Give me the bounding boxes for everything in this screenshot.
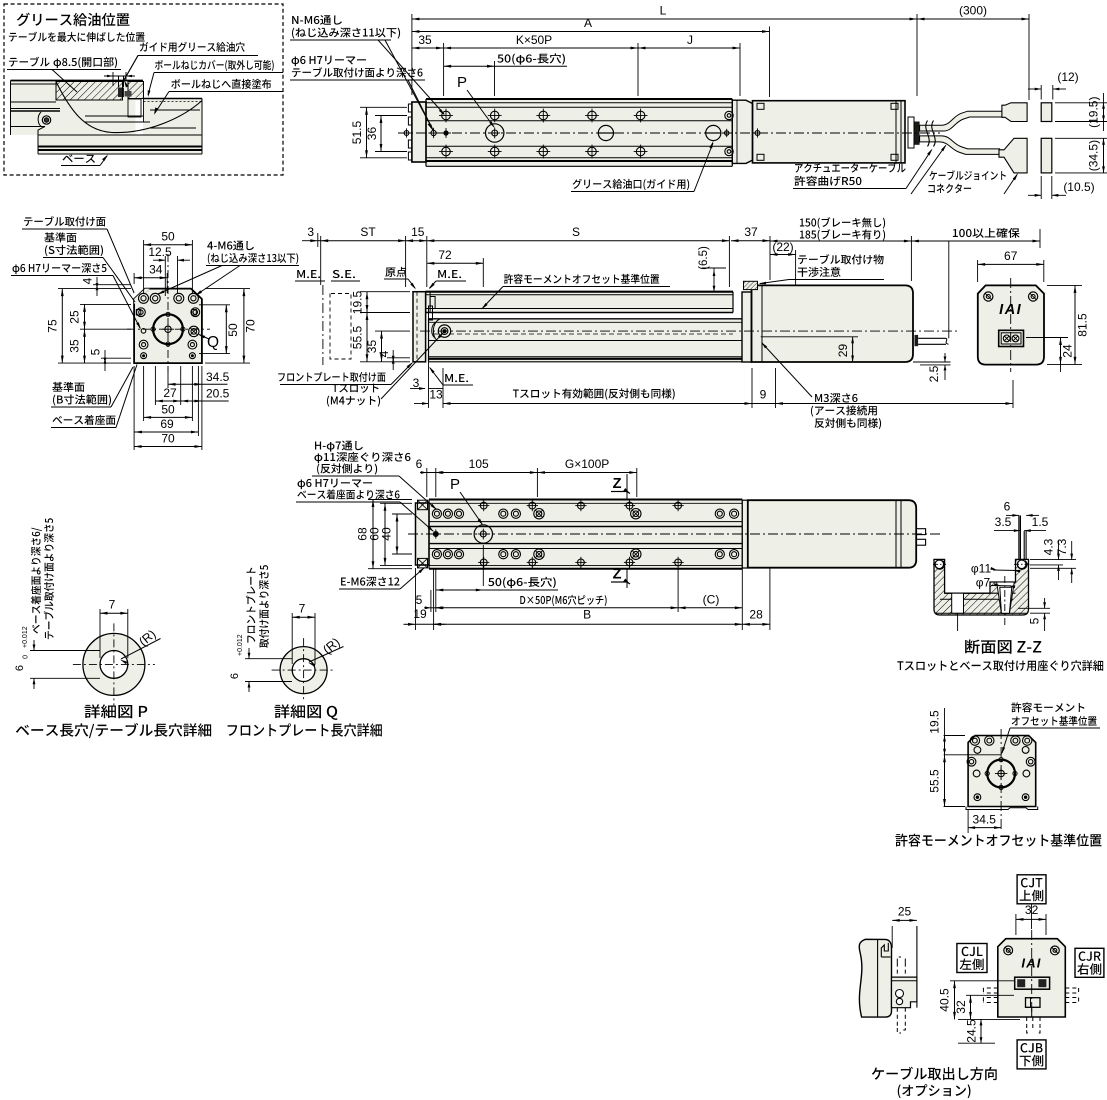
svg-text:20.5: 20.5 (206, 387, 230, 401)
svg-text:15: 15 (411, 225, 425, 239)
svg-text:19.5: 19.5 (351, 290, 365, 314)
svg-text:J: J (687, 33, 693, 47)
svg-text:G×100P: G×100P (565, 457, 609, 471)
svg-text:(12): (12) (1057, 70, 1078, 84)
svg-text:35: 35 (68, 339, 82, 353)
svg-text:34.5: 34.5 (973, 813, 997, 827)
svg-text:7: 7 (299, 602, 306, 616)
svg-text:5: 5 (416, 593, 423, 607)
svg-text:4.3: 4.3 (1042, 538, 1056, 555)
svg-text:(6.5): (6.5) (698, 246, 710, 270)
svg-text:7: 7 (109, 598, 116, 612)
svg-text:L: L (660, 4, 667, 18)
svg-text:27: 27 (163, 386, 177, 400)
svg-text:9: 9 (760, 388, 767, 402)
svg-text:55.5: 55.5 (351, 325, 365, 349)
svg-text:19.5: 19.5 (928, 710, 942, 734)
svg-text:75: 75 (46, 319, 60, 333)
svg-text:72: 72 (438, 248, 452, 262)
svg-text:P: P (450, 476, 460, 493)
svg-text:67: 67 (1004, 249, 1018, 263)
svg-text:29: 29 (836, 344, 850, 358)
svg-text:105: 105 (469, 457, 489, 471)
svg-text:B: B (583, 608, 591, 622)
svg-text:34: 34 (149, 263, 163, 277)
svg-text:70: 70 (244, 319, 258, 333)
svg-text:70: 70 (161, 432, 175, 446)
svg-text:40: 40 (380, 527, 394, 541)
svg-text:37: 37 (744, 225, 758, 239)
svg-text:25: 25 (68, 310, 82, 324)
svg-text:+0.012: +0.012 (22, 626, 29, 648)
svg-text:34.5: 34.5 (206, 370, 230, 384)
svg-text:(34.5): (34.5) (1087, 140, 1101, 171)
svg-text:ST: ST (360, 225, 376, 239)
svg-text:5: 5 (89, 348, 103, 355)
svg-text:A: A (584, 16, 592, 30)
svg-text:13: 13 (429, 388, 443, 402)
svg-text:6: 6 (229, 673, 241, 679)
svg-text:Q: Q (207, 334, 219, 351)
svg-text:81.5: 81.5 (1076, 313, 1090, 337)
svg-text:φ7: φ7 (976, 576, 991, 590)
svg-text:36: 36 (365, 127, 379, 141)
svg-text:φ11: φ11 (971, 562, 992, 576)
svg-text:6: 6 (416, 457, 423, 471)
svg-text:0: 0 (23, 655, 30, 659)
svg-text:5: 5 (1028, 617, 1042, 624)
svg-text:P: P (457, 74, 467, 91)
svg-text:32: 32 (954, 1000, 968, 1014)
svg-text:12.5: 12.5 (148, 245, 172, 259)
svg-text:69: 69 (160, 417, 174, 431)
svg-text:7.3: 7.3 (1055, 538, 1069, 555)
svg-text:4: 4 (377, 350, 391, 357)
svg-text:(22): (22) (772, 240, 793, 254)
svg-text:6: 6 (14, 665, 26, 671)
svg-text:S: S (572, 225, 580, 239)
svg-text:(10.5): (10.5) (1063, 180, 1094, 194)
svg-text:Z: Z (613, 567, 622, 583)
svg-text:(300): (300) (959, 4, 987, 18)
svg-text:25: 25 (898, 905, 912, 919)
svg-text:19: 19 (413, 607, 427, 621)
svg-text:3: 3 (413, 376, 420, 390)
svg-text:28: 28 (749, 608, 763, 622)
svg-text:4: 4 (81, 277, 95, 284)
svg-text:35: 35 (418, 33, 432, 47)
svg-text:40.5: 40.5 (938, 988, 952, 1012)
svg-text:3: 3 (307, 225, 314, 239)
svg-text:51.5: 51.5 (350, 120, 364, 144)
svg-text:6: 6 (1004, 500, 1011, 514)
svg-text:55.5: 55.5 (928, 769, 942, 793)
svg-text:50: 50 (226, 323, 240, 337)
svg-text:2.5: 2.5 (927, 365, 941, 382)
svg-text:24.5: 24.5 (965, 1019, 979, 1043)
svg-text:1.5: 1.5 (1032, 515, 1049, 529)
svg-text:Z: Z (613, 476, 622, 492)
svg-text:3.5: 3.5 (995, 515, 1012, 529)
svg-text:(C): (C) (703, 593, 720, 607)
svg-text:50: 50 (161, 230, 175, 244)
svg-text:+0.012: +0.012 (237, 634, 244, 656)
svg-text:K×50P: K×50P (516, 33, 552, 47)
svg-text:50: 50 (161, 403, 175, 417)
svg-text:(19.5): (19.5) (1087, 97, 1101, 128)
svg-text:24: 24 (1061, 344, 1075, 358)
